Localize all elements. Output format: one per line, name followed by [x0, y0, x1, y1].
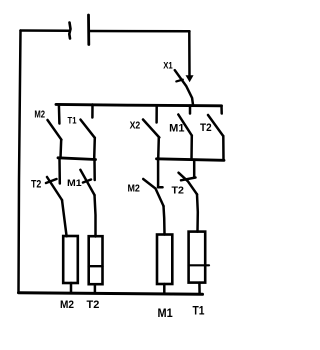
wire left rail: [19, 31, 21, 293]
contact M2 (row2 right): [143, 161, 164, 234]
svg-text:T2: T2: [87, 299, 100, 311]
contact M2 (row1 left): [48, 105, 62, 158]
svg-text:X2: X2: [130, 121, 141, 132]
svg-text:M1: M1: [169, 122, 184, 134]
wire bus 2 left: [58, 158, 96, 160]
contact T2 (row2 left): [46, 159, 67, 236]
coil T2: [89, 236, 103, 293]
svg-text:T2: T2: [200, 122, 212, 134]
coil M2: [63, 236, 78, 293]
svg-text:X1: X1: [163, 61, 173, 71]
battery B1 (top plates): [69, 15, 89, 45]
svg-text:M2: M2: [128, 183, 141, 195]
svg-text:T1: T1: [193, 306, 206, 318]
wire bottom rail: [19, 293, 203, 295]
contact M1 (row1 right): [178, 106, 192, 160]
svg-text:T2: T2: [172, 184, 185, 196]
contact X2 (row1 right): [143, 106, 159, 160]
coil T1: [189, 231, 209, 294]
svg-text:T2: T2: [31, 179, 41, 191]
coil M1: [157, 234, 172, 294]
contact X1 blade: [175, 70, 193, 105]
wire X1 drop with arrowhead: [186, 31, 192, 81]
contact M1 (row2 left): [80, 160, 95, 237]
wire bus 2 right: [157, 159, 225, 161]
contact T1 (row1 left): [81, 105, 95, 159]
wire top rail right segment: [89, 30, 190, 33]
contact T2 (row1 right): [208, 106, 224, 160]
svg-text:M1: M1: [67, 178, 82, 188]
svg-text:M2: M2: [34, 110, 45, 121]
svg-text:M1: M1: [158, 308, 174, 320]
contact T2 (row2 right): [179, 161, 198, 232]
svg-text:M2: M2: [60, 299, 74, 311]
svg-text:T1: T1: [68, 115, 77, 125]
wire top rail left segment: [21, 29, 70, 32]
wire bus 1: [56, 104, 222, 105]
